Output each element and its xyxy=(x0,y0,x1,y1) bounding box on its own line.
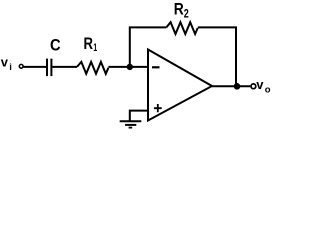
svg-text:i: i xyxy=(9,62,12,73)
svg-text:R: R xyxy=(84,34,94,53)
svg-text:C: C xyxy=(50,35,61,54)
svg-text:o: o xyxy=(265,85,271,96)
svg-text:R: R xyxy=(174,0,184,19)
svg-text:v: v xyxy=(256,77,264,92)
svg-text:2: 2 xyxy=(184,8,189,20)
svg-text:v: v xyxy=(1,54,9,69)
svg-text:1: 1 xyxy=(93,42,97,54)
